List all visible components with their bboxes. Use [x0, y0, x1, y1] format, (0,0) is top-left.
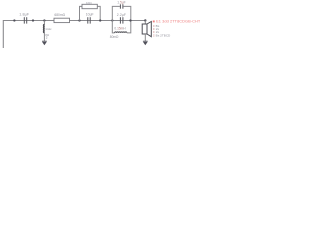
- node E (right of LC section): [129, 19, 131, 21]
- wire into speaker: [144, 21, 146, 25]
- wire bypass up-left: [80, 6, 83, 20]
- capacitor C4 (top branch): [120, 4, 123, 8]
- capacitor C1: [24, 17, 26, 23]
- wire bypass up-right: [97, 6, 100, 20]
- svg-text:80mΩ: 80mΩ: [110, 35, 119, 39]
- node speaker terminal: [144, 19, 146, 21]
- wire behind shunt coil: [43, 24, 45, 33]
- wire main horizontal rail: [3, 20, 145, 22]
- svg-text:1mH: 1mH: [45, 27, 51, 31]
- resistor R2 (bypass): [82, 4, 97, 8]
- svg-text:■ E1 3dd 2TT8CDGB-CHT: ■ E1 3dd 2TT8CDGB-CHT: [153, 19, 200, 24]
- node C (right of RC section): [99, 19, 101, 21]
- resistor R1: [54, 18, 70, 22]
- svg-text:2.2µF: 2.2µF: [117, 13, 126, 17]
- node B (left of RC section): [78, 19, 80, 21]
- svg-text:1.8µF: 1.8µF: [19, 13, 30, 17]
- wire shunt to ground: [43, 33, 45, 41]
- ground (speaker arrow): [143, 41, 148, 45]
- speaker SPK1: [142, 22, 151, 37]
- node A: [32, 19, 34, 21]
- wire left input drop: [2, 20, 4, 48]
- inductor L1 (shunt coil): [43, 24, 44, 32]
- capacitor C3 (main line): [120, 17, 123, 23]
- ground (left arrow): [42, 41, 47, 45]
- svg-text:2: 2: [46, 36, 48, 40]
- node D (left of LC section): [111, 19, 113, 21]
- svg-text:680mΩ: 680mΩ: [54, 13, 65, 17]
- wire LC top right: [123, 6, 130, 20]
- wire shunt vertical: [43, 21, 45, 25]
- wire LC bottom left: [112, 21, 114, 33]
- svg-text:0.15mH: 0.15mH: [114, 27, 126, 31]
- svg-text:10Ω: 10Ω: [86, 1, 92, 5]
- node input junction: [13, 19, 15, 21]
- svg-text:1.5µF: 1.5µF: [117, 1, 126, 5]
- node shunt junction: [43, 19, 45, 21]
- svg-text:10µF: 10µF: [86, 12, 94, 16]
- capacitor C2: [88, 17, 90, 23]
- wire LC bottom right: [127, 21, 131, 33]
- inductor L2 (bottom branch): [115, 32, 127, 33]
- wire LC top left: [112, 6, 120, 20]
- svg-text:≡ Bs 2TBCD: ≡ Bs 2TBCD: [153, 33, 171, 37]
- wire speaker to ground: [144, 34, 146, 41]
